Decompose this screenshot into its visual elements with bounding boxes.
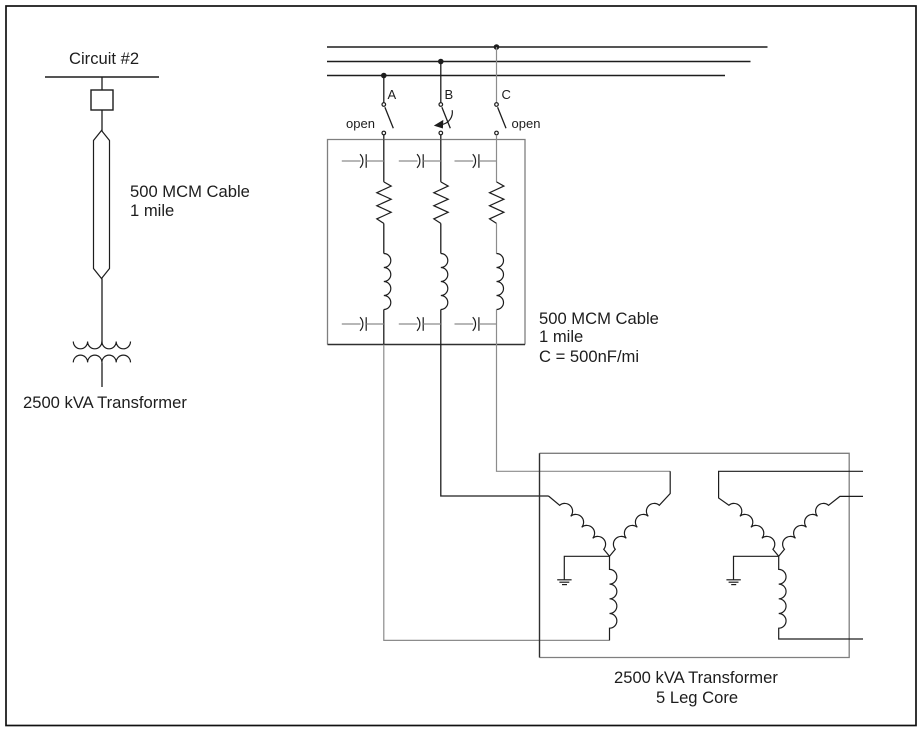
right wye winding (upper-right) with stub	[779, 496, 863, 556]
left wye neutral wire to ground	[564, 556, 609, 580]
left wye winding phase C (upper-right)	[610, 471, 671, 556]
svg-text:C: C	[502, 87, 511, 102]
capacitor C-B top curved plate	[417, 154, 420, 168]
capacitor C-A bottom straight plate	[365, 317, 367, 331]
svg-text:C = 500nF/mi: C = 500nF/mi	[539, 347, 639, 366]
capacitor C-C bottom lead right	[479, 323, 497, 325]
inductor phase C	[497, 254, 504, 310]
wire bus to switch A	[383, 76, 385, 103]
capacitor C-B top straight plate	[422, 154, 424, 168]
inductor phase B	[441, 254, 448, 310]
capacitor C-C top curved plate	[473, 154, 476, 168]
capacitor C-C bottom lead left	[455, 323, 474, 325]
capacitor C-C bottom curved plate	[473, 317, 476, 331]
switch A blade (open)	[385, 107, 393, 128]
wire switch A to cable box	[383, 135, 385, 140]
capacitor C-B top lead right	[423, 160, 441, 162]
capacitor C-B bottom straight plate	[422, 317, 424, 331]
right wye winding (upper-left) with stub	[719, 471, 863, 556]
capacitor C-A top lead right	[366, 160, 384, 162]
transformer T1 primary winding	[73, 342, 130, 349]
wire resistor to inductor phase A	[383, 223, 385, 253]
resistor phase B	[434, 182, 448, 224]
svg-text:5 Leg Core: 5 Leg Core	[656, 688, 738, 707]
switch B bottom contact	[439, 131, 443, 135]
capacitor C-C top lead left	[455, 160, 474, 162]
switch C bottom contact	[495, 131, 499, 135]
wire bus to switch B	[440, 62, 442, 103]
ground symbol right	[726, 580, 740, 585]
right wye vertical winding	[779, 556, 863, 639]
capacitor C-B bottom lead left	[399, 323, 418, 325]
svg-text:B: B	[445, 87, 454, 102]
wire switch B to cable box	[440, 135, 442, 140]
phase A conductor in box	[383, 140, 385, 182]
left wye vertical winding	[610, 556, 617, 640]
capacitor C-B bottom lead right	[423, 323, 441, 325]
phase C conductor in box (grey)	[496, 140, 498, 182]
transformer box (5 leg core)	[540, 453, 850, 657]
svg-text:1 mile: 1 mile	[130, 201, 174, 220]
resistor phase C	[490, 182, 504, 224]
wire bus to switch C (grey)	[496, 47, 498, 103]
wire inductor to bottom phase A	[383, 310, 385, 345]
wire phase B below box	[441, 345, 549, 497]
capacitor C-A top lead left	[342, 160, 361, 162]
right wye neutral wire to ground	[734, 556, 779, 580]
wire switch C to cable box (grey)	[496, 135, 498, 140]
wire resistor to inductor phase B	[440, 223, 442, 253]
switch C top contact	[495, 103, 499, 107]
bus stub for circuit 2	[45, 76, 159, 78]
capacitor C-A bottom curved plate	[360, 317, 363, 331]
wire inductor to bottom phase B	[440, 310, 442, 345]
cable symbol 500 MCM (elongated hexagon)	[94, 131, 110, 279]
node junction phase C	[494, 44, 500, 50]
phase B conductor in box	[440, 140, 442, 182]
bus line 1	[327, 46, 768, 48]
svg-text:A: A	[388, 87, 397, 102]
node junction phase B	[438, 59, 444, 65]
switch B top contact	[439, 103, 443, 107]
cable model box	[328, 140, 526, 345]
bus line 2	[327, 61, 751, 63]
node junction phase A	[381, 73, 387, 79]
svg-text:500 MCM Cable: 500 MCM Cable	[539, 309, 659, 328]
capacitor C-A top straight plate	[365, 154, 367, 168]
transformer T1 secondary winding	[73, 355, 130, 362]
svg-text:1 mile: 1 mile	[539, 327, 583, 346]
switch B closing arc	[443, 110, 453, 124]
svg-text:500 MCM Cable: 500 MCM Cable	[130, 182, 250, 201]
svg-text:2500 kVA Transformer: 2500 kVA Transformer	[614, 668, 778, 687]
ground symbol left	[557, 580, 571, 585]
breaker square	[91, 90, 113, 110]
bus line 3	[327, 75, 725, 77]
wire phase C below box (grey)	[497, 345, 671, 472]
left wye winding phase B (upper-left)	[549, 496, 610, 556]
switch A bottom contact	[382, 131, 386, 135]
transformer box left edge	[539, 453, 541, 657]
svg-text:2500 kVA Transformer: 2500 kVA Transformer	[23, 393, 187, 412]
capacitor C-A bottom lead right	[366, 323, 384, 325]
inductor phase A	[384, 254, 391, 310]
svg-text:Circuit #2: Circuit #2	[69, 49, 139, 68]
capacitor C-B top lead left	[399, 160, 418, 162]
cable model box bottom edge	[328, 344, 526, 346]
capacitor C-C top lead right	[479, 160, 497, 162]
switch A top contact	[382, 103, 386, 107]
wire bus to breaker box	[101, 77, 103, 90]
capacitor C-A top curved plate	[360, 154, 363, 168]
capacitor C-C top straight plate	[478, 154, 480, 168]
capacitor C-A bottom lead left	[342, 323, 361, 325]
wire cable to transformer T1	[101, 279, 103, 344]
svg-text:open: open	[346, 116, 375, 131]
capacitor C-C bottom straight plate	[478, 317, 480, 331]
wire transformer T1 secondary lead	[101, 362, 103, 387]
capacitor C-B bottom curved plate	[417, 317, 420, 331]
wire phase A below box (grey)	[384, 345, 610, 641]
wire inductor to bottom phase C (grey)	[496, 310, 498, 345]
switch C blade (open)	[498, 107, 506, 128]
switch B closing arrowhead	[434, 120, 444, 129]
switch B blade	[442, 107, 450, 128]
wire resistor to inductor phase C (grey)	[496, 223, 498, 253]
svg-text:open: open	[512, 116, 541, 131]
resistor phase A	[377, 182, 391, 224]
wire breaker to cable	[101, 110, 103, 131]
